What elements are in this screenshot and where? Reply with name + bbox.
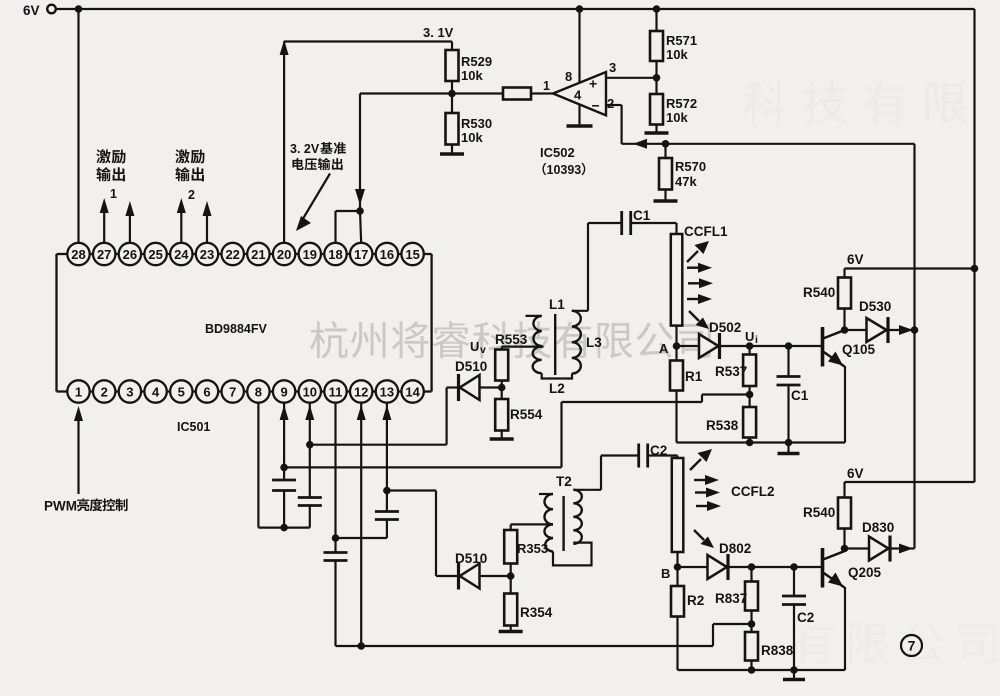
wire 3.2V ref to pins 17/18 [360,92,452,94]
capacitor pin10 [298,496,322,499]
svg-text:23: 23 [200,247,214,262]
wire pin10 column [305,405,314,420]
arrow 3.1V direction up [280,40,289,55]
wire R529 to R530 [451,81,453,113]
svg-text:R2: R2 [687,593,704,608]
svg-text:A: A [659,341,669,356]
svg-text:C1: C1 [633,208,651,223]
svg-text:R570: R570 [675,159,706,174]
IC U501 BD9884FV body [57,254,432,392]
svg-text:−: − [592,98,600,114]
svg-text:R838: R838 [761,643,794,658]
svg-text:C1: C1 [791,388,809,403]
node Ui [746,342,754,350]
svg-text:19: 19 [303,247,317,262]
wire 6V terminal to junction [56,8,79,10]
node B [674,563,682,571]
label 激励输出1 [96,149,125,163]
diode D530 [845,329,867,331]
pin27 excitation output arrow [103,211,105,244]
node Q105 collector [841,326,849,334]
svg-text:14: 14 [405,384,420,399]
capacitor C2 filter [793,567,795,596]
node R553 R554 D510 [498,384,506,392]
svg-text:Q105: Q105 [842,342,876,357]
wire T2 secondary to C2 [573,489,601,491]
svg-text:1: 1 [543,79,550,93]
node D802 R837 [748,563,756,571]
wire D502 to Ui [720,345,750,347]
ground IC502 [567,124,593,127]
resistor R554 [501,388,503,400]
page number circle 7 [901,635,922,656]
svg-text:24: 24 [174,247,189,262]
wire lower feedback jog [713,623,752,625]
node R353 R354 D510 [507,572,515,580]
wire pin20 up [283,42,285,244]
svg-text:6V: 6V [847,252,864,267]
svg-text:3. 2V: 3. 2V [290,142,320,156]
svg-text:3: 3 [126,384,133,399]
resistor R537 [748,346,750,355]
wire R2 to lower rail [676,617,678,671]
wire to Q205 base [752,566,823,568]
resistor R571 10k [650,31,663,61]
transistor Q205 [823,548,845,588]
svg-text:26: 26 [123,247,137,262]
svg-text:5: 5 [178,384,185,399]
wire IC502 pin4 to ground [578,104,580,125]
svg-text:IC502: IC502 [540,145,575,160]
svg-text:22: 22 [225,247,239,262]
wire Q105 emitter to rail [844,366,846,443]
wire resistor to IC502 pin1 [531,92,553,94]
svg-text:2: 2 [188,188,195,202]
wire lower feedback rail [336,645,714,647]
diode D830 [845,547,870,549]
wire IC502 pin8 power [578,9,580,83]
svg-text:12: 12 [354,384,368,399]
svg-text:10k: 10k [666,110,688,125]
diode D510 upper [460,375,480,400]
svg-text:R538: R538 [706,418,739,433]
svg-text:R554: R554 [510,407,543,422]
wire feedback right drop [913,144,915,549]
svg-text:PWM: PWM [44,499,77,514]
svg-text:2: 2 [607,96,614,111]
node R538 on rail [746,439,754,447]
IC501 top pin circles 28-15 [67,243,424,265]
inductor L1 primary top half [526,315,542,317]
faint corner watermark top-right [743,81,966,123]
lamp CCFL2 tube [672,458,684,552]
wire R570 to ground [664,190,666,201]
wire pin13 to lower D510 [387,489,436,491]
svg-text:D802: D802 [719,541,751,556]
node R537 R538 junction [748,386,750,395]
wire top 6V rail [79,8,975,10]
svg-text:i: i [755,334,758,346]
wire feedback to IC502 pin2 [622,143,915,145]
label 激励输出2 [175,149,204,163]
diode D510 lower [460,564,480,589]
inductor L2 primary bottom half [533,347,542,374]
node pin11 tap [332,534,340,542]
arrow 3.2V into pin17 node [355,189,365,205]
wire R538 to emitter rail [748,438,750,443]
svg-text:10k: 10k [461,130,483,145]
node Q205 collector [841,545,849,553]
inductor T2 primary upper [539,493,553,495]
wire 3.2V node to series resistor [452,92,503,94]
svg-text:R530: R530 [461,116,492,131]
svg-text:C2: C2 [797,610,814,625]
svg-text:R529: R529 [461,54,492,69]
wire pin13 column [382,405,391,420]
svg-text:3: 3 [609,60,616,75]
inductor L3 secondary [572,311,581,374]
wire R540 to 6V [843,269,845,278]
wire R838 to rail [750,661,752,671]
resistor R529 10k [446,50,459,81]
pin26 excitation output arrow [129,214,131,244]
resistor R837 [750,567,752,582]
svg-text:R837: R837 [715,591,747,606]
transistor Q105 [823,327,845,367]
wire L3 top to C1 [572,310,588,312]
wire pin10 cap to common [309,506,311,528]
resistor R572 10k [650,94,663,125]
node 6V rail junction at pin28 column [75,5,83,13]
svg-text:4: 4 [574,88,582,103]
wire node to R572 [655,78,657,94]
svg-text:R354: R354 [520,605,553,620]
wire R540 lower to 6V [843,482,845,498]
svg-text:17: 17 [354,247,368,262]
arrow D830 output [899,544,913,554]
wire D510 to node [480,575,511,577]
wire upper emitter rail [677,441,846,443]
wire pin9 feedback to current sense [284,466,561,468]
capacitor pin13 [375,510,399,513]
wire pin12 column [357,405,366,420]
node pin9 common [280,524,288,532]
svg-text:R353: R353 [517,541,548,556]
svg-text:D530: D530 [859,299,891,314]
wire pin13 cap down [386,520,388,539]
wire R571 to 6V rail [655,9,657,31]
capacitor C1 filter [787,346,789,377]
svg-text:（10393）: （10393） [534,162,594,177]
svg-text:16: 16 [380,247,394,262]
wire R353 to node [510,564,512,577]
node C1 filter tap [785,342,793,350]
svg-text:D510: D510 [455,359,487,374]
node pin12 on rail [357,642,365,650]
node C1 ground tap [785,439,793,447]
wire pin28 to 6V rail [77,9,79,244]
pin23 excitation output arrow [206,214,208,244]
svg-text:BD9884FV: BD9884FV [205,322,267,336]
wire pin11 to pin13 cap [336,537,387,539]
svg-text:13: 13 [380,384,394,399]
node R571 on 6V rail [653,5,661,13]
node pin3 / R571 R572 [653,74,661,82]
wire Ui to Q105 base [750,345,823,347]
node R837 R838 junction [750,611,752,625]
svg-text:R553: R553 [495,332,528,347]
svg-text:R571: R571 [666,33,697,48]
wire C2 filter to rail [793,605,795,671]
ground R572 [645,131,669,134]
node IC502 power on 6V rail [576,5,584,13]
op-amp IC502 triangle [553,72,606,115]
svg-text:1: 1 [110,187,117,201]
svg-text:R537: R537 [715,364,747,379]
resistor R353 [504,530,517,564]
diode D802 [678,566,708,568]
wire C2 to CCFL2 [648,454,678,456]
svg-text:L1: L1 [549,297,565,312]
wire R571 to node [655,61,657,78]
svg-text:7: 7 [229,384,236,399]
node R838 on rail [748,666,756,674]
svg-text:R540: R540 [803,285,835,300]
wire D802 to junction [728,566,752,568]
ground lower channel [793,670,795,679]
svg-text:CCFL2: CCFL2 [731,484,775,499]
svg-text:25: 25 [148,247,162,262]
svg-text:21: 21 [251,247,265,262]
wire pin11 column [334,403,336,553]
svg-text:47k: 47k [675,174,697,189]
svg-text:27: 27 [97,247,111,262]
svg-text:2: 2 [101,384,108,399]
CCFL2 light arrows [690,449,721,548]
wire R353 to T2 tap [511,523,553,525]
wire CCFL1 to node A [675,326,677,346]
svg-text:10: 10 [303,384,317,399]
wire pin9 column [280,405,289,420]
svg-text:v: v [480,344,486,356]
svg-text:3. 1V: 3. 1V [423,25,454,40]
wire node to pin18 [336,210,361,212]
series resistor to op-amp pin1 [503,88,531,100]
faint corner watermark bottom-right [792,621,996,663]
svg-text:T2: T2 [556,474,572,489]
svg-text:6V: 6V [23,3,40,18]
svg-text:6V: 6V [847,466,864,481]
node pin13 tap [383,487,391,495]
node 6V rail / upper 6V branch [971,265,979,273]
wire R530 to ground [451,145,453,154]
arrow D530 output [899,325,913,335]
resistor R354 [510,576,512,594]
svg-text:R572: R572 [666,96,697,111]
svg-text:9: 9 [280,384,287,399]
svg-text:8: 8 [255,384,262,399]
IC501 bottom pin circles 1-14 [67,380,424,402]
svg-text:15: 15 [405,247,419,262]
capacitor C2 coupling [637,444,640,468]
resistor R540 upper [838,278,851,309]
svg-text:18: 18 [328,247,342,262]
wire C1 filter to rail [787,385,789,443]
node pin10 tap [306,441,314,449]
CCFL1 light arrows [687,241,713,329]
wire R1 down to emitter rail [675,391,677,443]
resistor R540 lower [838,498,851,529]
wire R572 to ground [655,125,657,133]
wire node to pin17 [360,211,361,244]
wire IC502 pin2 [606,104,622,106]
wire R554 ground [501,431,503,439]
svg-text:U: U [470,339,479,354]
wire pin8 down [257,403,259,528]
inductor T2 secondary [573,490,582,544]
wire T2 bottom join [553,543,592,566]
svg-text:R540: R540 [803,505,835,520]
annotation arrow 3.2V output [301,174,330,223]
wire pin9 cap to common [283,491,285,528]
svg-text:6: 6 [203,384,210,399]
svg-text:Q205: Q205 [848,565,882,580]
svg-text:8: 8 [565,69,572,84]
T2 core [562,496,564,551]
resistor R570 47k [664,144,666,158]
wire D510 to node [480,386,502,388]
wire R354 ground [510,626,512,631]
wire 3.1V to R529 [284,40,452,42]
wire pin11 cap down [334,561,336,647]
arrow feedback direction left [633,139,647,149]
svg-text:U: U [745,329,754,344]
resistor R1 [675,346,677,361]
transformer core [554,314,556,375]
node D530 on feedback drop [911,326,919,334]
pin24 excitation output arrow [180,211,182,244]
wire D530 to feedback line [888,329,915,331]
ground R554 [490,437,514,440]
svg-text:7: 7 [908,638,916,654]
diode D502 [677,345,700,347]
svg-text:L2: L2 [549,381,565,396]
svg-text:IC501: IC501 [177,420,210,434]
svg-text:28: 28 [71,247,85,262]
node above pin17 [356,207,364,215]
node pin9 feedback tap [280,464,288,472]
node R570 tap [662,140,670,148]
wire R553 to L1 L2 center tap [501,347,503,350]
6V input terminal circle [47,5,56,14]
resistor R2 [676,567,678,586]
svg-text:11: 11 [329,384,343,399]
svg-text:20: 20 [277,247,291,262]
wire IC502 pin3 to divider [606,77,657,79]
pin1 PWM input arrow [74,406,83,421]
resistor R838 [750,624,752,632]
node A [673,342,681,350]
svg-text:L3: L3 [586,335,602,350]
wire pin10 to upper D510 [310,444,447,446]
svg-text:4: 4 [152,384,160,399]
capacitor pin11 [324,551,348,554]
wire collector to R540 lower [843,529,845,549]
capacitor C1 coupling [620,211,623,235]
svg-text:D510: D510 [455,551,487,566]
inductor T2 primary lower [544,524,553,551]
node C2 filter tap [790,563,798,571]
node 3.2V reference [448,90,456,98]
resistor R538 [748,395,750,408]
resistor R530 10k [446,113,459,145]
svg-text:1: 1 [75,384,82,399]
wire CCFL2 to node B [676,552,678,567]
resistor R553 [501,381,503,388]
wire D830 to feedback line [890,547,915,549]
svg-text:10k: 10k [666,47,688,62]
ground R354 [499,630,523,633]
svg-text:D830: D830 [862,520,894,535]
wire collector to R540 [843,309,845,331]
node C2 ground tap [790,666,798,674]
svg-text:D502: D502 [709,320,741,335]
ground upper channel [787,443,789,453]
ground R530 [440,152,464,155]
svg-text:10k: 10k [461,68,483,83]
svg-text:R1: R1 [685,369,703,384]
svg-text:B: B [661,566,670,581]
wire C1 to CCFL1 [631,222,677,224]
wire L2 L3 bottom join [542,373,572,378]
wire lower emitter rail [678,669,846,671]
lamp CCFL1 tube [671,234,683,326]
svg-text:+: + [589,76,597,92]
ground R570 [654,199,678,202]
wire Q205 emitter to rail [844,587,846,670]
svg-text:CCFL1: CCFL1 [684,224,728,239]
wire 6V rail right drop [973,9,975,482]
capacitor pin9 [272,479,296,482]
watermark 杭州将睿科技有限公司 [310,321,711,358]
